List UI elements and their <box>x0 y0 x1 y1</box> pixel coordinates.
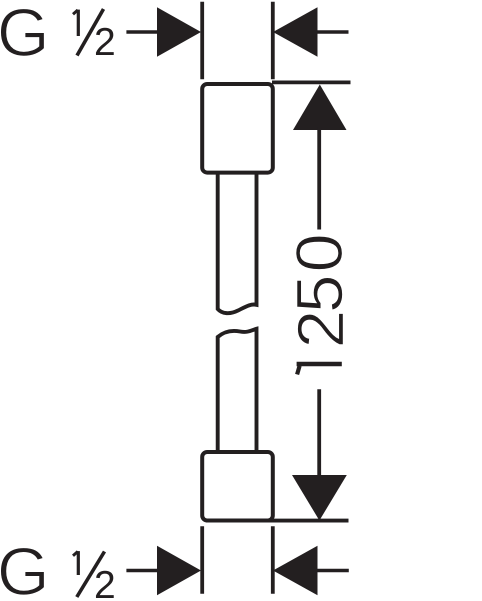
bottom extension line right <box>271 526 275 593</box>
length dimension top extension line <box>272 81 351 85</box>
top extension line left <box>200 2 204 80</box>
top dimension arrowhead right <box>273 7 318 56</box>
thread label G top <box>0 9 44 57</box>
thread label numerator 1 bottom <box>73 551 78 575</box>
dimension label digit 1 <box>297 364 342 374</box>
thread label fraction slash top <box>77 9 104 56</box>
length dimension arrowhead up <box>293 85 347 131</box>
thread label numerator 1 top <box>73 10 78 36</box>
top hose fitting nut <box>202 84 273 173</box>
thread label denominator 2 bottom <box>96 571 114 598</box>
length dimension line upper <box>317 127 321 230</box>
bottom hose fitting nut <box>202 452 273 521</box>
bottom extension line left <box>200 526 204 593</box>
dimension label digit 2 <box>297 313 343 345</box>
bottom dimension arrowhead right <box>273 546 318 595</box>
hose lower segment <box>218 329 257 453</box>
thread label denominator 2 top <box>96 28 114 55</box>
hose upper segment <box>218 172 257 313</box>
top dimension tail right <box>316 30 349 34</box>
top dimension tail left <box>126 30 161 34</box>
top extension line right <box>271 2 275 80</box>
bottom dimension tail right <box>316 569 349 573</box>
dimension label digit 5 <box>297 277 343 310</box>
thread label fraction slash bottom <box>77 552 105 598</box>
bottom dimension arrowhead left <box>157 546 201 595</box>
length dimension arrowhead down <box>292 475 347 521</box>
length dimension line lower <box>317 389 321 477</box>
length dimension bottom extension line <box>206 519 349 523</box>
bottom dimension tail left <box>126 569 161 573</box>
thread label G bottom <box>0 547 44 595</box>
top dimension arrowhead left <box>157 7 201 56</box>
dimension label digit 0 <box>296 236 343 270</box>
